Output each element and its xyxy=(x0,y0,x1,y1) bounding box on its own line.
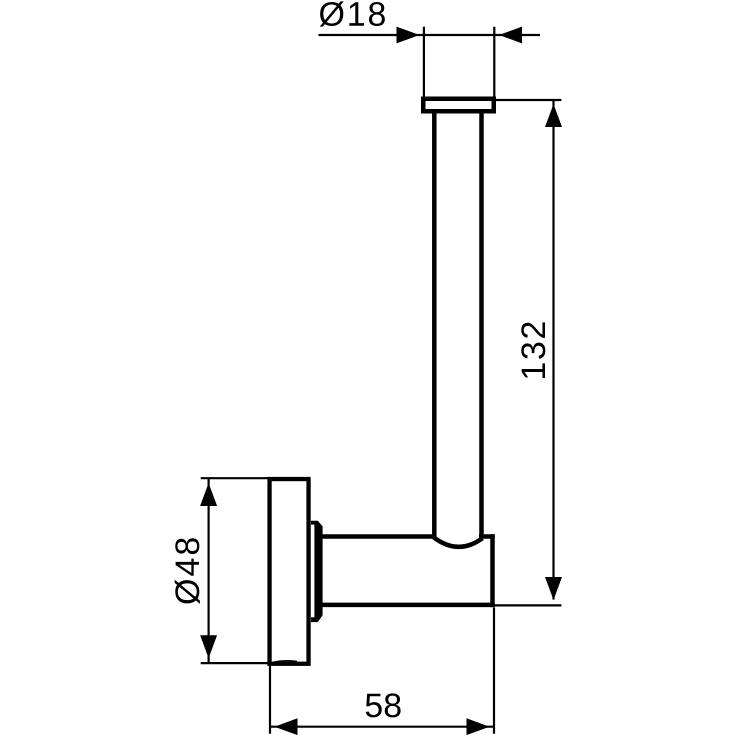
dimension D48: bottom extension line xyxy=(201,662,268,664)
dimension 58: left extension line xyxy=(269,666,271,734)
holder vertical tube: left silhouette line xyxy=(432,111,437,537)
dimension D18: label text xyxy=(320,1,385,26)
dimension 58: label text xyxy=(366,693,401,717)
holder vertical tube: right silhouette line xyxy=(479,111,484,537)
dimension 58: right extension line xyxy=(493,608,495,734)
dimension D18: left arrowhead xyxy=(397,27,420,44)
dimension 132: bottom extension line xyxy=(493,604,562,606)
dimension D18: left extension line xyxy=(423,27,425,98)
dimension D18: right arrowhead xyxy=(499,27,522,44)
dimension D48: top extension line xyxy=(201,477,268,479)
horizontal arm: top edge xyxy=(321,534,435,539)
holder top cap xyxy=(423,99,494,112)
dimension 58: left arrowhead xyxy=(275,718,298,735)
dimension 58: right arrowhead xyxy=(467,718,490,735)
dimension D48: top arrowhead xyxy=(200,483,217,506)
horizontal arm: top-right step edge xyxy=(479,534,495,539)
dimension D48: dimension line xyxy=(208,478,210,663)
dimension 58: dimension line xyxy=(270,726,494,728)
mounting collar behind wall plate xyxy=(311,521,323,622)
dimension 132: label text (rotated) xyxy=(521,322,545,378)
dimension 132: bottom arrowhead xyxy=(545,577,562,600)
dimension 132: top arrowhead xyxy=(545,104,562,127)
dimension 132: dimension line xyxy=(552,100,554,600)
tube-arm junction arc xyxy=(434,537,483,547)
wall plate bottom curvature line xyxy=(273,661,297,662)
dimension D18: right extension line xyxy=(493,27,495,100)
dimension 132: top extension line xyxy=(494,99,561,101)
dimension D48: bottom arrowhead xyxy=(200,635,217,658)
dimension D18: dimension line xyxy=(319,34,541,36)
wall plate (rosette), side view xyxy=(270,479,309,664)
horizontal arm: right end edge xyxy=(490,534,495,607)
horizontal arm: bottom edge xyxy=(321,603,495,608)
dimension D48: label text (rotated) xyxy=(175,538,200,604)
